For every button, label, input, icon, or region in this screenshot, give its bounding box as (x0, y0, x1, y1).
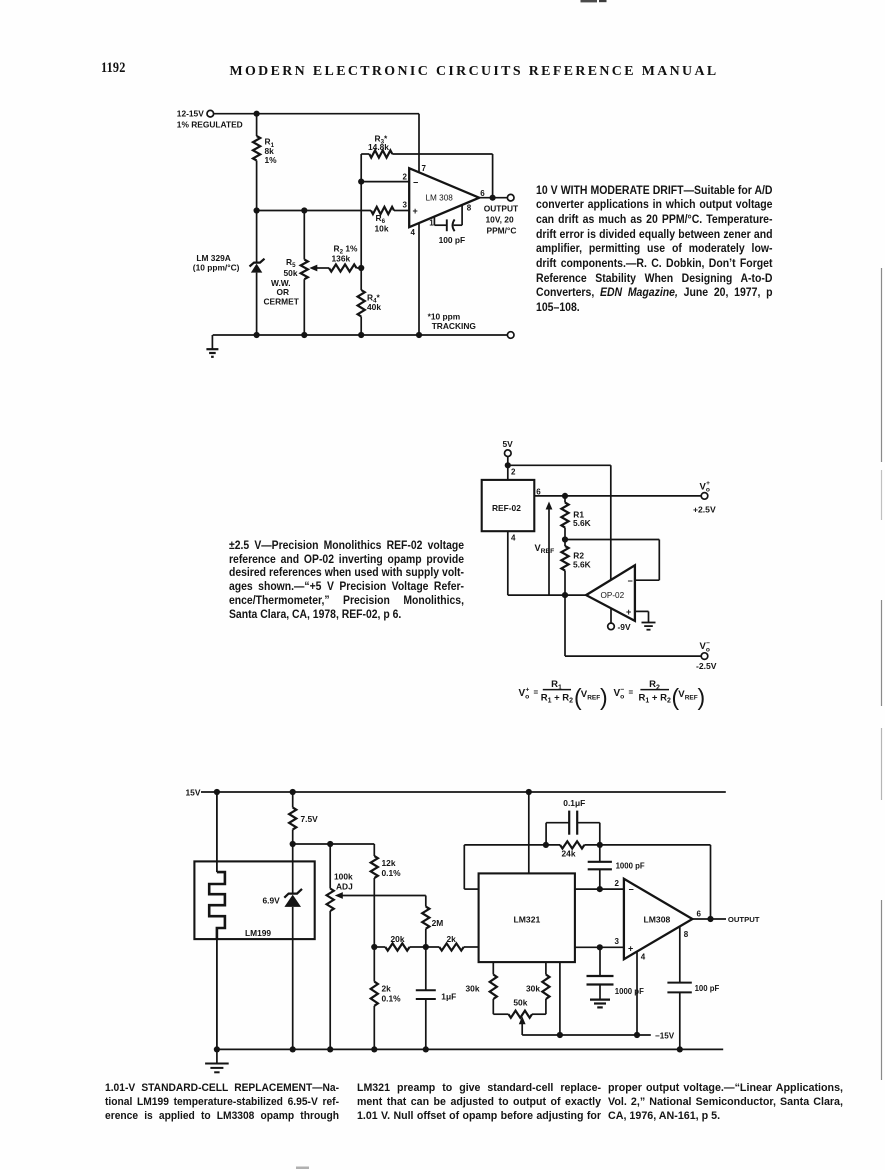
svg-text:): ) (600, 684, 608, 710)
svg-text:100k: 100k (334, 872, 353, 882)
svg-text:OUTPUT: OUTPUT (728, 915, 760, 924)
svg-text:PPM/°C: PPM/°C (487, 225, 517, 235)
svg-text:3: 3 (403, 201, 408, 210)
svg-text:−: − (629, 885, 634, 895)
svg-text:VREF: VREF (678, 689, 697, 701)
svg-text:6: 6 (480, 189, 485, 198)
svg-text:5.6K: 5.6K (573, 560, 591, 570)
svg-text:24k: 24k (562, 849, 576, 859)
svg-text:LM 329A: LM 329A (196, 253, 230, 263)
svg-text:6.9V: 6.9V (263, 896, 281, 906)
svg-text:5.6K: 5.6K (573, 518, 591, 528)
svg-text:*10 ppm: *10 ppm (428, 311, 461, 321)
svg-text:0.1%: 0.1% (382, 868, 402, 878)
svg-text:1: 1 (429, 219, 434, 228)
svg-text:OP-02: OP-02 (601, 591, 625, 600)
svg-text:R1 + R2: R1 + R2 (639, 692, 671, 704)
svg-text:R1 + R2: R1 + R2 (541, 692, 573, 704)
svg-text:REF-02: REF-02 (492, 503, 521, 513)
svg-text:CERMET: CERMET (264, 297, 300, 307)
svg-text:=: = (534, 688, 539, 697)
svg-text:3: 3 (615, 937, 620, 946)
svg-text:2: 2 (511, 468, 516, 477)
svg-text:10V, 20: 10V, 20 (486, 214, 514, 224)
svg-text:5V: 5V (503, 439, 514, 449)
svg-text:VREF: VREF (581, 689, 600, 701)
svg-text:40k: 40k (367, 302, 381, 312)
svg-text:20k: 20k (391, 934, 405, 944)
svg-text:12k: 12k (382, 858, 396, 868)
svg-text:14.8k: 14.8k (368, 142, 389, 152)
svg-text:15V: 15V (186, 788, 201, 798)
svg-text:100 pF: 100 pF (695, 984, 720, 993)
svg-text:+: + (628, 944, 633, 954)
svg-text:2: 2 (403, 173, 408, 182)
svg-text:): ) (698, 684, 706, 710)
svg-text:-9V: -9V (618, 622, 631, 632)
svg-text:2k: 2k (382, 984, 392, 994)
svg-text:8: 8 (467, 204, 472, 213)
svg-text:ADJ: ADJ (336, 881, 353, 891)
svg-text:VREF: VREF (535, 543, 555, 555)
svg-text:−: − (628, 576, 633, 586)
svg-text:4: 4 (511, 534, 516, 543)
svg-text:1000 pF: 1000 pF (616, 862, 645, 871)
svg-text:LM199: LM199 (245, 928, 271, 938)
svg-text:TRACKING: TRACKING (432, 321, 476, 331)
svg-text:OUTPUT: OUTPUT (484, 204, 519, 214)
svg-text:2: 2 (615, 879, 620, 888)
svg-text:−: − (413, 177, 418, 187)
svg-text:-2.5V: -2.5V (696, 661, 717, 671)
svg-text:30k: 30k (466, 983, 480, 993)
svg-text:10k: 10k (375, 223, 389, 233)
svg-text:Vo−: Vo− (614, 687, 625, 701)
svg-text:1% REGULATED: 1% REGULATED (177, 120, 243, 130)
svg-text:=: = (629, 688, 634, 697)
svg-text:4: 4 (641, 952, 646, 961)
svg-text:7.5V: 7.5V (301, 814, 319, 824)
svg-text:100 pF: 100 pF (439, 235, 466, 245)
svg-text:1μF: 1μF (441, 992, 456, 1002)
svg-text:7: 7 (422, 164, 427, 173)
svg-text:1%: 1% (265, 155, 278, 165)
svg-text:136k: 136k (332, 254, 351, 264)
svg-text:+: + (626, 607, 631, 617)
svg-text:4: 4 (411, 228, 416, 237)
svg-text:50k: 50k (284, 268, 298, 278)
svg-text:Vo+: Vo+ (700, 480, 711, 494)
svg-text:6: 6 (697, 909, 702, 918)
svg-text:LM308: LM308 (644, 914, 671, 924)
svg-text:30k: 30k (526, 983, 540, 993)
svg-text:50k: 50k (513, 997, 527, 1007)
svg-text:8: 8 (684, 930, 689, 939)
svg-text:2M: 2M (432, 918, 444, 928)
svg-text:0.1μF: 0.1μF (563, 798, 585, 808)
svg-text:6: 6 (536, 487, 541, 496)
svg-text:LM 308: LM 308 (426, 194, 454, 203)
svg-text:Vo+: Vo+ (519, 687, 530, 701)
svg-text:1000 pF: 1000 pF (615, 987, 644, 996)
svg-text:12-15V: 12-15V (177, 108, 204, 118)
svg-text:LM321: LM321 (514, 914, 541, 924)
svg-text:+: + (413, 206, 418, 216)
svg-text:−15V: −15V (655, 1032, 675, 1041)
svg-text:(10 ppm/°C): (10 ppm/°C) (193, 263, 240, 273)
svg-text:0.1%: 0.1% (382, 993, 402, 1003)
svg-text:Vo−: Vo− (700, 640, 711, 654)
svg-text:2k: 2k (447, 934, 457, 944)
svg-text:+2.5V: +2.5V (693, 504, 716, 514)
